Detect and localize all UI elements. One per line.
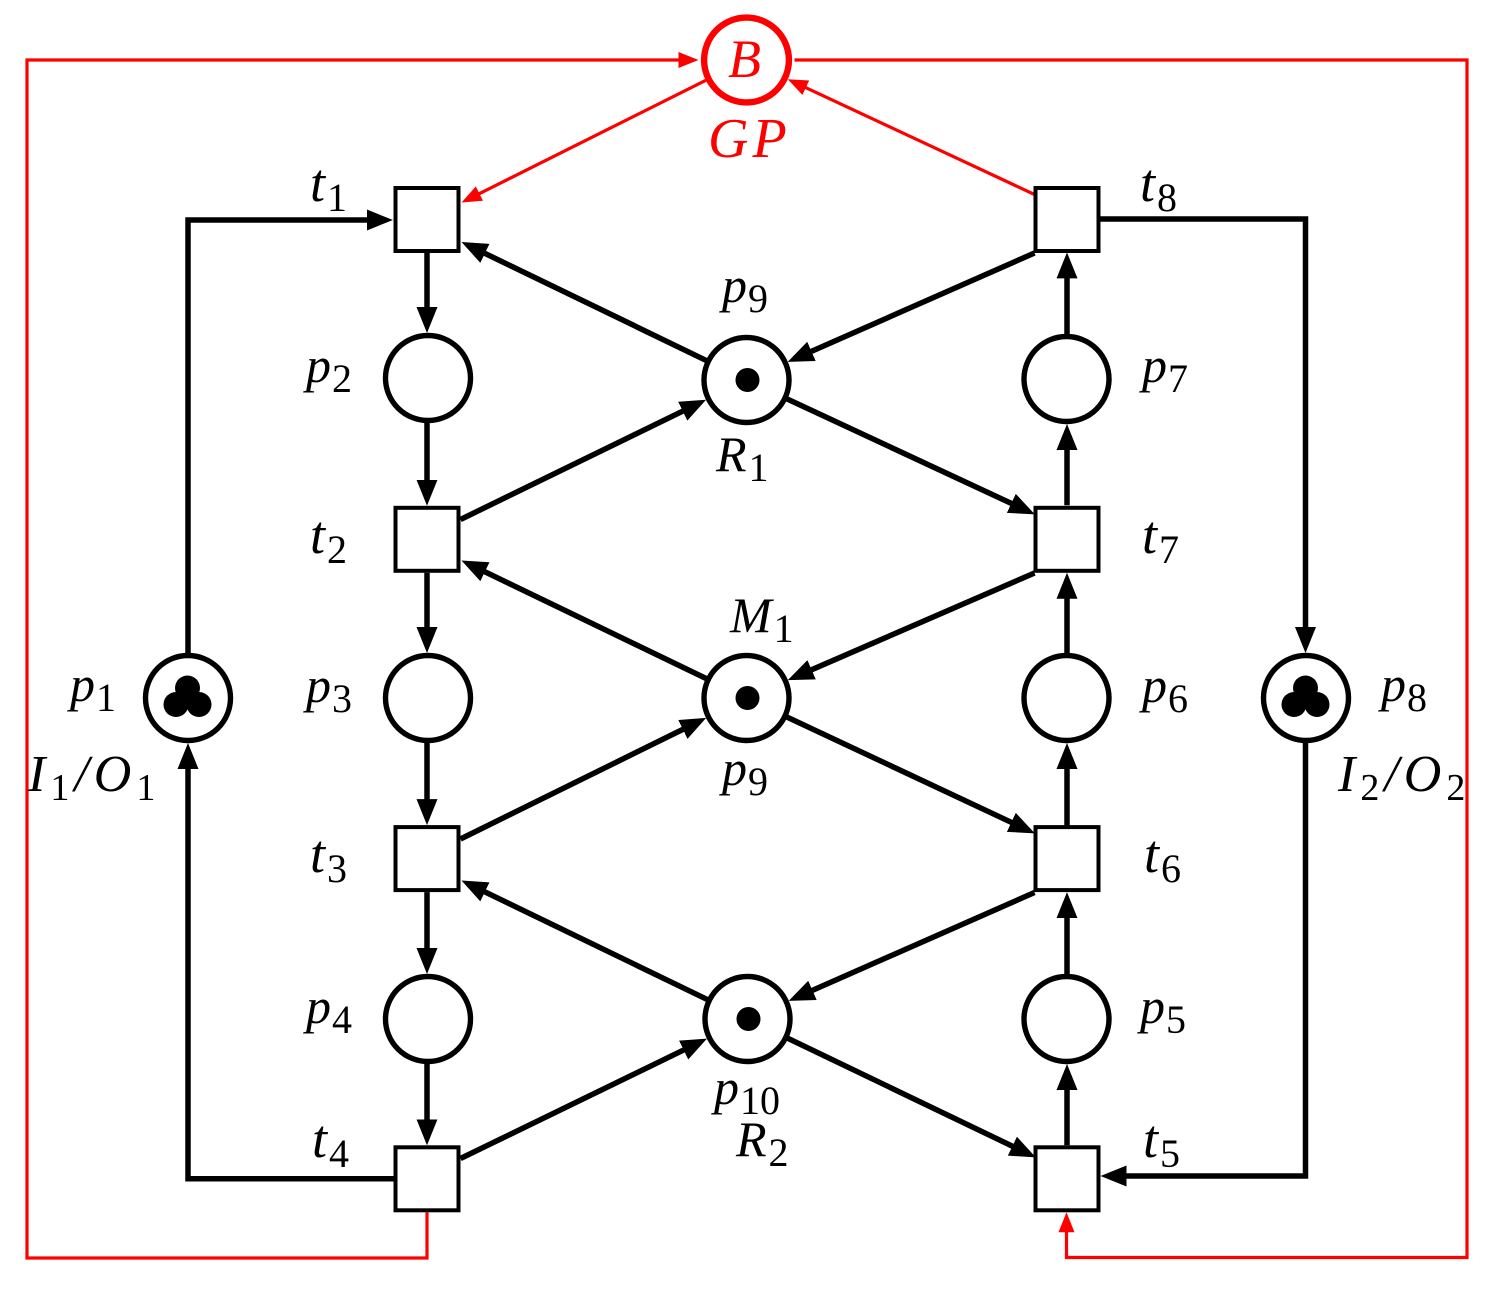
wire p9 to t1 [468, 245, 707, 361]
wire t7 to M1 [794, 573, 1034, 677]
svg-text:I2/O2: I2/O2 [1337, 746, 1470, 809]
place M1 (p9) with token [704, 656, 789, 741]
svg-text:t1: t1 [310, 153, 347, 220]
wire p6 to t7 [1064, 580, 1070, 653]
svg-text:B: B [728, 29, 761, 89]
svg-text:t6: t6 [1144, 824, 1181, 891]
svg-text:t3: t3 [310, 824, 347, 891]
transition t3 [396, 827, 459, 890]
wire t3 to p4 [424, 892, 430, 967]
wire t8 to p9 [794, 253, 1034, 359]
place p10 (R2) with token [705, 977, 790, 1062]
svg-text:p1: p1 [67, 656, 116, 720]
wire red arc B to t1 [468, 80, 706, 199]
wire p8 to t5 [1108, 743, 1306, 1176]
wire t1 to p2 [424, 253, 430, 326]
wire p5 to t6 [1064, 899, 1070, 974]
wire t4 to p10 [461, 1042, 701, 1159]
place p5 [1024, 977, 1109, 1062]
wire p3 to t3 [424, 743, 430, 818]
wire M1 to t6 [786, 717, 1028, 831]
svg-text:p3: p3 [303, 657, 352, 721]
transition t2 [396, 508, 459, 571]
wire t2 to p3 [424, 573, 430, 646]
place p2 [386, 336, 471, 421]
transition t6 [1036, 827, 1099, 890]
svg-text:M1: M1 [729, 587, 794, 651]
place p1 with three tokens [146, 656, 231, 741]
svg-text:p9: p9 [719, 257, 768, 321]
wire p10 to t5 [787, 1038, 1029, 1154]
place p9 (R1) with token [704, 338, 789, 423]
svg-text:t7: t7 [1142, 505, 1179, 572]
transition t1 [396, 188, 459, 251]
place p8 with three tokens [1264, 656, 1349, 741]
wire t8 to p8 [1101, 219, 1306, 646]
transition t5 [1036, 1147, 1099, 1210]
wire t6 to p6 [1064, 750, 1070, 825]
wire t6 to p10 [795, 893, 1034, 999]
wire p7 to t8 [1064, 259, 1070, 334]
wire t2 to p9 [461, 403, 700, 520]
svg-text:t5: t5 [1143, 1109, 1180, 1176]
svg-text:p2: p2 [303, 337, 352, 401]
place p4 [386, 977, 471, 1062]
wire p9 to t7 [786, 399, 1028, 512]
wire p2 to t2 [424, 423, 430, 499]
svg-text:t2: t2 [310, 505, 347, 572]
svg-text:p8: p8 [1378, 656, 1427, 720]
wire p1 to t1 [188, 220, 386, 653]
svg-text:I1/O1: I1/O1 [27, 746, 160, 809]
svg-text:p5: p5 [1137, 978, 1186, 1042]
svg-text:R1: R1 [715, 426, 769, 490]
svg-text:p6: p6 [1139, 657, 1188, 721]
svg-text:p9: p9 [719, 740, 768, 804]
place B (GP) red [704, 18, 791, 170]
wire t7 to p7 [1064, 431, 1070, 505]
transition t4 [396, 1147, 459, 1210]
svg-text:GP: GP [708, 108, 791, 170]
svg-text:R2: R2 [735, 1111, 789, 1175]
place p3 [386, 656, 471, 741]
wire red arc t8 to B [794, 82, 1034, 194]
transition t7 [1036, 508, 1099, 571]
svg-text:t8: t8 [1140, 153, 1177, 220]
wire t5 to p5 [1064, 1071, 1070, 1145]
svg-text:p4: p4 [303, 978, 352, 1042]
wire t3 to M1 [461, 721, 700, 839]
svg-text:t4: t4 [312, 1109, 349, 1176]
transition t8 [1036, 188, 1099, 251]
place p6 [1024, 656, 1109, 741]
wire t4 to p1 [188, 750, 394, 1179]
wire p10 to t3 [468, 884, 708, 1000]
wire p4 to t4 [424, 1064, 430, 1138]
wire red arc B to t5 via right border [795, 60, 1468, 1258]
wire M1 to t2 [468, 564, 707, 679]
place p7 [1024, 337, 1109, 422]
wire red arc t4 to B via left border [27, 60, 692, 1258]
svg-text:p7: p7 [1139, 337, 1188, 401]
